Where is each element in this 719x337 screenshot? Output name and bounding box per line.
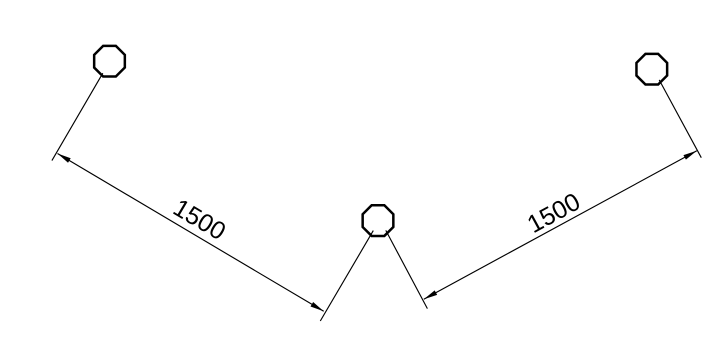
wire leader from top-right octagon: [659, 80, 701, 158]
wire left leg from middle octagon: [320, 231, 373, 321]
octagon symbol middle: [363, 205, 394, 236]
arrowhead left dimension upper end: [58, 154, 71, 163]
dimension line left 1500: [58, 154, 324, 312]
arrowhead left dimension lower end: [311, 302, 324, 311]
wire right leg from middle octagon: [386, 230, 428, 308]
dimension line right 1500: [424, 151, 697, 299]
dimension text 1500 left: [168, 194, 230, 246]
arrowhead right dimension lower end: [424, 290, 437, 299]
arrowhead right dimension upper end: [683, 151, 696, 160]
octagon symbol top-right: [636, 54, 667, 85]
dimension text 1500 right: [523, 188, 585, 239]
wire leader from top-left octagon: [52, 73, 103, 160]
octagon symbol top-left: [94, 46, 125, 77]
